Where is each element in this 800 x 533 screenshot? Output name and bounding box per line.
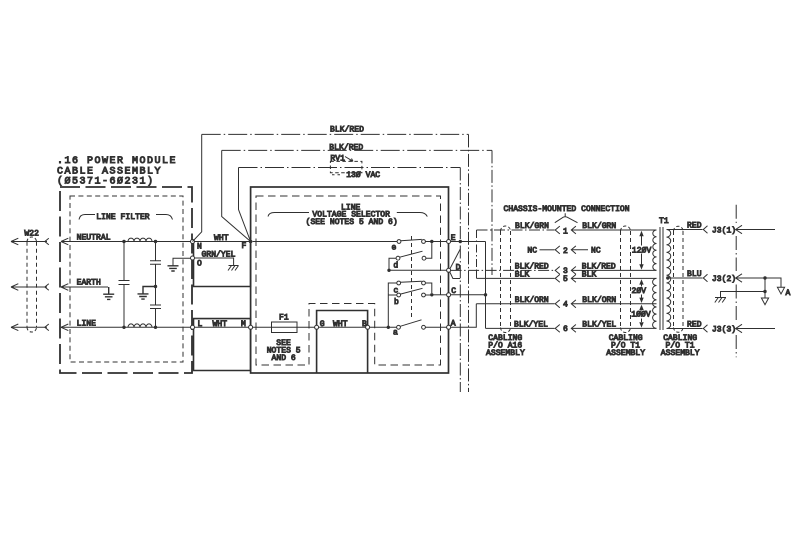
wire D row to terminal 3 (dash-dot) (451, 269, 555, 271)
terminal D circle (447, 268, 451, 272)
switch contact b left (397, 293, 401, 297)
chevron J3(1) (703, 226, 707, 233)
svg-text:a: a (393, 328, 398, 337)
cable oval T1 primary side (621, 231, 631, 328)
voltage selector dashed box (256, 196, 441, 365)
brace under chassis label (555, 213, 578, 223)
svg-text:ASSEMBLY: ASSEMBLY (661, 349, 700, 358)
transformer core (660, 227, 663, 330)
ground symbol earth wire (103, 287, 114, 299)
svg-text:NC: NC (527, 246, 537, 255)
open triangle ground lower (761, 298, 768, 305)
switch contact c left (397, 281, 401, 285)
selector label brace right (397, 213, 428, 217)
wire BLK/RED loop2 vertical (491, 150, 493, 275)
terminal 3 arrow left (555, 267, 560, 275)
ground symbol mid branch (138, 287, 156, 300)
junction dot J3(2) branch (763, 276, 766, 279)
capacitor branch mid lower (155, 287, 157, 328)
cable oval A16 side (501, 231, 511, 328)
terminal O circle (191, 256, 195, 260)
arrow left neutral (11, 238, 18, 245)
svg-text:BLK/YEL: BLK/YEL (514, 321, 548, 330)
D down branch to loop3 vertical (450, 272, 460, 278)
svg-text:(SEE NOTES 5 AND 6): (SEE NOTES 5 AND 6) (306, 218, 398, 227)
terminal A circle (447, 325, 451, 329)
T1 secondary winding (667, 230, 671, 329)
wire terminal 5 row (477, 277, 555, 279)
terminal C circle (447, 293, 451, 297)
RV1 arrow mark (345, 157, 353, 162)
wire N to F (WHT) (195, 241, 251, 243)
terminal E circle (447, 240, 451, 244)
svg-text:e: e (392, 244, 397, 253)
junction dot D row left (387, 269, 390, 272)
junction dot a row (387, 326, 390, 329)
svg-text:NEUTRAL: NEUTRAL (77, 233, 111, 242)
inductor on line (128, 324, 152, 327)
terminal 6 arrow left (555, 325, 560, 333)
terminal 2 arrow right (571, 246, 576, 254)
100V bracket arrows (641, 311, 643, 323)
terminal 6 arrow right (571, 325, 576, 333)
wire terminal 4 right (BLK/ORN) (572, 303, 657, 305)
arrowhead neutral cable end (45, 238, 49, 245)
voltage selector enclosure (solid) (251, 187, 449, 373)
line filter dashed box (70, 196, 183, 362)
terminal box N-O (solid) (194, 242, 251, 287)
terminal B circle (366, 325, 370, 329)
svg-text:ASSEMBLY: ASSEMBLY (606, 349, 645, 358)
svg-text:1ØØV: 1ØØV (631, 311, 651, 320)
arrow neutral module side (61, 238, 68, 245)
svg-text:GRN/YEL: GRN/YEL (202, 251, 236, 260)
svg-text:ASSEMBLY: ASSEMBLY (486, 349, 525, 358)
wire NC right stub (572, 249, 589, 251)
fuse F1 body (272, 322, 298, 333)
wire d right up to e row (426, 243, 432, 258)
junction dot at 431.8 row e (430, 240, 433, 243)
svg-text:RV1: RV1 (330, 155, 345, 164)
svg-text:AND 6: AND 6 (272, 354, 296, 363)
svg-text:O: O (197, 260, 202, 269)
arrow earth module side (61, 284, 68, 291)
arrow J3(3) from right (736, 324, 775, 332)
svg-text:J3(2): J3(2) (712, 275, 736, 284)
capacitor branch left (C across line-neutral) (123, 242, 125, 328)
svg-text:NC: NC (591, 246, 601, 255)
wire BLK/RED loop1 from N (193, 134, 202, 241)
terminal 5 arrow right (571, 275, 576, 283)
arrow J3(2) from right (736, 274, 765, 282)
wire e to E (425, 241, 446, 243)
svg-text:13Ø VAC: 13Ø VAC (346, 171, 380, 180)
svg-text:5: 5 (563, 275, 568, 284)
wire C to E vertical (451, 294, 486, 296)
svg-text:M: M (241, 320, 246, 329)
terminal M circle (249, 325, 253, 329)
wire terminal 3 right (BLK/RED) (572, 269, 657, 271)
node F (249, 240, 253, 244)
wire terminal 1 right (BLK/GRN) (572, 229, 657, 231)
switch contact a right (422, 325, 426, 329)
wire b right up to C row (425, 294, 431, 296)
terminal N circle (191, 240, 195, 244)
cable W22 oval (27, 242, 37, 328)
chassis boundary dash-dot line (735, 205, 737, 358)
wire EARTH left segment (11, 286, 47, 288)
svg-text:EARTH: EARTH (77, 279, 101, 288)
svg-text:BLK: BLK (582, 271, 597, 280)
wire secondary tap to J3(2) (BLU) (667, 277, 703, 279)
wire E vertical down (485, 242, 487, 329)
terminal 5 arrow left (555, 275, 560, 283)
terminal 1 arrow left (555, 226, 560, 234)
svg-text:BLK/RED: BLK/RED (330, 126, 364, 135)
svg-text:J3(1): J3(1) (712, 226, 736, 235)
terminal 3 arrow right (571, 267, 576, 275)
svg-text:F1: F1 (279, 314, 289, 323)
switch blade e (401, 239, 422, 240)
wire to VA ground (765, 278, 781, 287)
arrow line module side (61, 324, 68, 331)
svg-text:.16 POWER MODULE: .16 POWER MODULE (57, 156, 177, 167)
wire B to contact a (370, 326, 397, 328)
wire EARTH into module (61, 286, 108, 288)
svg-text:(Ø5371-6Ø231): (Ø5371-6Ø231) (57, 176, 155, 188)
wire LINE left segment (11, 326, 47, 328)
chevron J3(3) (703, 325, 707, 332)
20V bracket arrows (641, 284, 643, 300)
terminal 4 arrow left (555, 300, 560, 308)
svg-text:BLK/RED: BLK/RED (329, 143, 363, 152)
svg-text:BLK: BLK (515, 271, 530, 280)
wire secondary bottom to J3(3) (RED) (667, 328, 703, 330)
terminal 1 arrow right (571, 226, 576, 234)
open triangle ground VA (777, 287, 784, 294)
arrow J3(1) from right (736, 225, 775, 233)
svg-text:d: d (393, 261, 398, 270)
wire loop3 vertical (459, 168, 461, 393)
junction dot lower branch (763, 290, 766, 293)
wire D row (389, 269, 447, 271)
wire BLK/RED loop2 from F (222, 150, 251, 241)
svg-text:12ØV: 12ØV (632, 246, 652, 255)
wire L to M (WHT) (195, 326, 251, 328)
svg-text:BLU: BLU (687, 270, 702, 279)
svg-text:WHT: WHT (333, 320, 348, 329)
RV1 dashed box (330, 161, 362, 172)
vertical 476.5 from t1 row to t5 row (dash-dot) (476, 230, 478, 270)
switch contact c right (422, 281, 426, 285)
switch contact d right (422, 256, 426, 260)
wire RV1 loop3 from F (239, 168, 251, 242)
inductor on neutral (128, 238, 152, 241)
svg-text:LINE: LINE (77, 319, 97, 328)
120V bracket arrows (641, 235, 643, 265)
switch blade d (open) (400, 251, 423, 257)
svg-text:BLK/GRN: BLK/GRN (515, 222, 549, 231)
wire c left down (388, 283, 397, 293)
svg-text:LINE FILTER: LINE FILTER (96, 213, 150, 222)
svg-text:B: B (362, 320, 367, 329)
svg-text:WHT: WHT (213, 320, 228, 329)
svg-text:T1: T1 (659, 217, 669, 226)
line filter label brace left (79, 215, 95, 220)
wire O left to filter ground (173, 258, 191, 265)
svg-text:6: 6 (563, 325, 568, 334)
switch coupling dashed line (411, 236, 413, 320)
switch contact d left (396, 256, 400, 260)
svg-text:F: F (242, 242, 247, 251)
switch contact b right (422, 293, 426, 297)
earth ground at O left wire (168, 266, 179, 271)
T1 primary winding lower (653, 278, 657, 328)
wire M to G through fuse (253, 326, 315, 328)
wire c right to C row (425, 283, 431, 293)
wire a to A (425, 326, 446, 328)
arrow left earth (11, 284, 18, 291)
node dots filter (122, 240, 157, 329)
junction dot C-E vertical (484, 293, 487, 296)
junction dot loop3 at E row (459, 240, 462, 243)
svg-text:BLK/YEL: BLK/YEL (582, 321, 616, 330)
svg-text:4: 4 (563, 301, 568, 310)
wire NEUTRAL into module (61, 241, 192, 243)
switch blade c (401, 281, 422, 282)
wire NC left stub (540, 249, 555, 251)
junction dot C row (430, 293, 433, 296)
svg-text:b: b (394, 298, 399, 307)
chevron J3(2) (703, 274, 707, 281)
diagonal loop3 to D (450, 249, 460, 269)
wire to terminal 6 (486, 327, 555, 329)
svg-text:BLK/GRN: BLK/GRN (582, 222, 616, 231)
switch contact e left (397, 240, 401, 244)
wire secondary top to J3(1) (RED) (667, 229, 703, 231)
arrow left line (11, 324, 18, 331)
svg-text:CHASSIS-MOUNTED CONNECTION: CHASSIS-MOUNTED CONNECTION (504, 205, 630, 214)
wire b left down to a row (388, 293, 397, 328)
wire C row (432, 294, 447, 296)
wire A right (451, 304, 477, 328)
wire BLK/RED loop1 vertical (468, 134, 470, 392)
chassis ground symbol j3 (715, 298, 726, 303)
dash marks before 130 VAC (332, 174, 340, 176)
svg-text:2: 2 (563, 247, 568, 256)
svg-text:2ØV: 2ØV (632, 287, 647, 296)
terminal L circle (191, 325, 195, 329)
A16 module left enclosure (phantom dashed box) (60, 187, 192, 373)
svg-text:RED: RED (687, 321, 702, 330)
cable oval T1 secondary side (674, 231, 684, 328)
wire to terminal 4 (476, 303, 554, 305)
wire D to terminal 1 (dash-dot) (477, 229, 555, 231)
svg-text:RED: RED (687, 222, 702, 231)
wire NEUTRAL left segment (11, 241, 47, 243)
svg-text:D: D (456, 264, 461, 273)
arrowhead line cable end (45, 324, 49, 331)
wire E right (451, 241, 486, 243)
terminal 2 arrow left (555, 246, 560, 254)
chassis ground at O wire (228, 266, 239, 271)
T1 primary winding upper (120V) (653, 230, 657, 270)
interior box G-B (solid) (317, 311, 368, 374)
terminal G circle (315, 325, 319, 329)
wire F to switch row e (253, 241, 398, 243)
arrowhead earth cable end (45, 284, 49, 291)
svg-text:BLK/ORN: BLK/ORN (515, 296, 549, 305)
svg-text:J3(3): J3(3) (712, 325, 736, 334)
switch blade a (open) (400, 320, 421, 327)
line filter label brace right (156, 215, 173, 220)
svg-text:BLK/ORN: BLK/ORN (582, 296, 616, 305)
wire to chassis ground left (721, 292, 766, 298)
capacitor branch mid upper (155, 242, 157, 287)
wire terminal 6 right (BLK/YEL) (572, 327, 657, 329)
wire G to B (WHT) (319, 326, 366, 328)
junction dot secondary tap (666, 276, 669, 279)
wire d left to D row (389, 258, 396, 270)
switch blade b (open) (400, 288, 422, 294)
switch contact e right (422, 240, 426, 244)
svg-text:WHT: WHT (214, 234, 229, 243)
terminal box L-M (solid) (194, 319, 251, 371)
wire GRN/YEL from O (195, 258, 234, 266)
svg-text:1: 1 (563, 227, 568, 236)
wire LINE into module (61, 326, 192, 328)
wire terminal 5 right (BLK) (572, 277, 657, 279)
svg-text:A: A (786, 289, 791, 298)
wire J3(2) down branch (764, 278, 766, 298)
switch contact a left (397, 325, 401, 329)
selector label brace left (268, 213, 309, 217)
terminal 4 arrow right (571, 300, 576, 308)
